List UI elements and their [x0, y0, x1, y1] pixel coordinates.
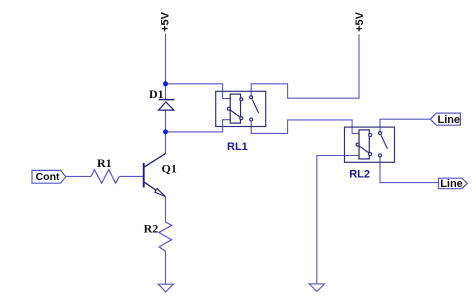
svg-text:RL1: RL1	[227, 141, 248, 153]
wire R2 to ground left	[165, 251, 167, 284]
relay RL1	[216, 91, 266, 153]
svg-text:R1: R1	[97, 156, 112, 170]
RL2 switch arm	[381, 135, 387, 149]
ground right	[309, 284, 324, 292]
wire +5V left riser to diode D1 top	[165, 34, 167, 100]
RL2 switch contacts	[379, 132, 382, 135]
node flag Line top	[430, 113, 460, 126]
Q1 base bar	[143, 163, 145, 188]
node flag Cont	[32, 170, 66, 183]
Q1 collector line	[144, 154, 165, 167]
resistor R2	[144, 222, 172, 252]
resistor R1	[91, 156, 119, 183]
RL1 coil	[230, 94, 240, 123]
svg-text:Line: Line	[440, 178, 463, 190]
RL2 coil	[359, 130, 369, 159]
wire RL2 switch contact to Line bottom flag	[380, 157, 439, 183]
svg-text:R2: R2	[144, 222, 159, 236]
svg-text:+5V: +5V	[354, 11, 366, 32]
svg-text:D1: D1	[149, 87, 164, 101]
RL2 body	[345, 127, 395, 162]
wire bottom junction to RL1 coil bottom pin	[166, 120, 231, 132]
wire Cont flag to R1	[66, 175, 91, 177]
svg-text:+5V: +5V	[159, 11, 171, 32]
wire RL1 switch contact to RL2 coil top pin	[251, 120, 359, 133]
diode D1	[149, 87, 174, 110]
Q1 emitter line	[144, 182, 165, 196]
wire RL2 switch common to Line top flag	[380, 119, 430, 131]
node junction at D1 top	[163, 81, 168, 86]
Q1 emitter arrow	[155, 189, 165, 197]
relay RL2	[345, 127, 395, 181]
D1 anode triangle	[159, 102, 174, 110]
wire RL2 coil bottom pin to ground right	[317, 156, 359, 284]
node flag Line bottom	[439, 178, 468, 190]
R1 zigzag	[91, 170, 119, 184]
ground left	[158, 284, 173, 292]
svg-text:Q1: Q1	[162, 162, 177, 176]
wire top junction to RL1 coil top pin	[166, 84, 231, 99]
power +5V right label	[354, 11, 366, 32]
transistor Q1	[144, 154, 177, 197]
power +5V left label	[159, 11, 171, 32]
D1 cathode bar	[159, 99, 175, 101]
wire R1 to Q1 base	[119, 175, 143, 177]
svg-text:Line: Line	[438, 114, 461, 126]
svg-text:RL2: RL2	[349, 169, 370, 181]
node junction at D1 bottom	[163, 129, 168, 134]
RL1 switch arm	[252, 100, 258, 114]
RL1 switch contacts	[250, 96, 253, 99]
RL1 body	[216, 91, 266, 126]
wire RL1 switch common to +5V right	[251, 34, 359, 98]
wire Q1 emitter to R2	[165, 197, 167, 222]
wire diode D1 bottom to Q1 collector	[165, 110, 167, 154]
svg-text:Cont: Cont	[36, 171, 60, 183]
R2 zigzag	[159, 222, 172, 251]
